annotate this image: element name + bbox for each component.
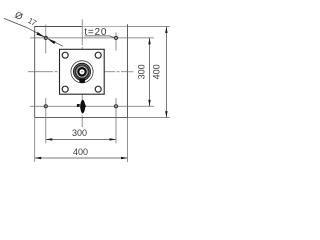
dim: right 300 dimension line [149,38,151,106]
fitting: left arm [77,104,80,107]
node: left hole-column centerline lower segment + extension to 300 dim [45,98,47,143]
dim arrow: bottom 300 left [46,138,53,140]
dim arrow: bottom 300 right [110,138,117,140]
hub: inner dark ring [78,68,85,75]
svg-text:400: 400 [151,64,161,79]
hole: flange bolt hole top-left [62,52,68,58]
hole: corner hole top-left (Ø17) [44,36,47,39]
fitting: grease nipple below flange, black body [80,100,85,113]
hole: corner hole top-right (Ø17) [114,36,117,39]
node: top hole-row centerline (extends right as extension line for 300 dim) [30,37,154,39]
dim: bottom 400 dimension line [35,157,128,159]
node: bottom hole-row centerline (extends right as extension line for 300 dim) [30,105,154,107]
hole: flange bolt hole bottom-left [62,86,68,92]
hole: flange bolt hole bottom-right [95,86,101,92]
flange: central square flange outline [60,49,105,94]
hole: corner hole bottom-left (Ø17) [44,105,47,108]
dim arrow: bottom 400 right [121,157,128,159]
svg-text:300: 300 [72,128,87,138]
wire: right edge overshoot above top edge [127,24,129,26]
hub: faint gap circle [77,67,87,77]
dim leader: Ø17 leader line through top-left hole [4,18,63,46]
dim arrow: right 400 top [165,27,167,34]
dim arrow: Ø17 upper arrowhead pointing to hole [36,32,44,37]
hub: black clamp tab at bottom [79,79,85,83]
dim: bottom 300 dimension line [46,138,116,140]
node: main horizontal centerline of hub [28,71,134,73]
hole: corner hole bottom-right (Ø17) [114,105,117,108]
node: left hole-column centerline upper segment [45,25,47,54]
node: right hole-column centerline lower segment + extension to 300 dim [115,98,117,143]
dim arrow: right 300 bottom [148,100,150,107]
hub: outer thin circle [71,61,93,83]
dim arrow: Ø17 lower arrowhead pointing to hole [47,39,55,44]
hole: flange bolt hole top-right [95,52,101,58]
hub: band texture light ring 2 [76,66,89,79]
hub: center dot [81,71,82,72]
dim arrow: bottom 400 left [35,157,42,159]
wire: extension of plate top edge to right 400 dim [128,26,170,28]
hub: outer race ring (thick dark band) [75,65,90,80]
dim leader: t=20 underline leader to plate face [85,36,115,38]
wire: extension of plate right edge to bottom 400 dim [127,118,129,162]
plate outline (400x400 base plate, top view) [35,27,82,118]
wire: extension of plate bottom edge to right 400 dim [128,117,170,119]
fitting: notch between arm and body [79,103,81,107]
svg-text:300: 300 [137,64,147,79]
wire: extension of plate left edge to bottom 400 dim [34,118,36,162]
dim arrow: right 300 top [148,38,150,45]
dim arrow: right 400 bottom [165,111,167,118]
dim: right 400 dimension line [165,27,167,118]
svg-text:400: 400 [73,147,88,157]
node: right hole-column centerline upper segment [115,33,117,51]
hub: band texture light ring [74,64,89,79]
node: main vertical centerline of hub [81,20,83,128]
fitting: middle bulge [80,103,86,108]
